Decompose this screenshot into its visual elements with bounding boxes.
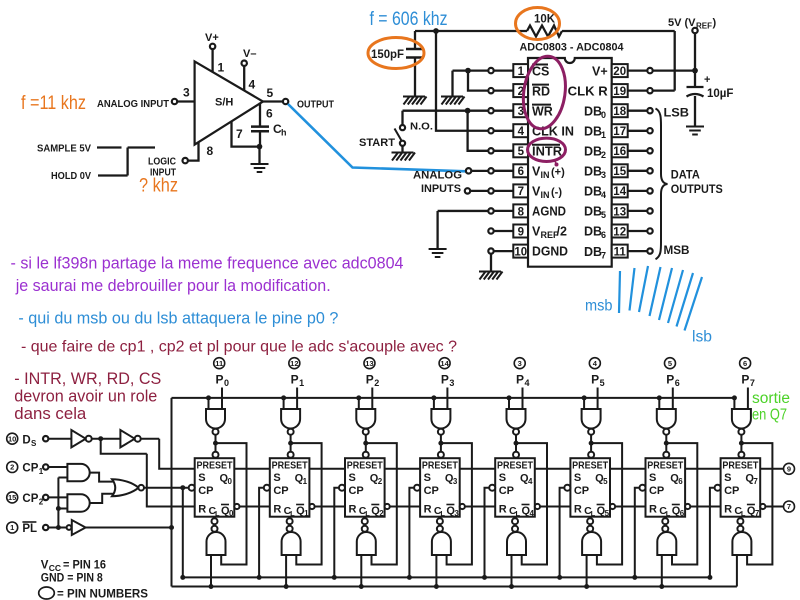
wire pin 8 logic input [188,142,199,160]
junction dot load bus cell 1 [284,584,289,589]
wire AGND [438,211,489,249]
pin box 15 [612,164,628,177]
wire Q4 to S [535,468,571,470]
wire Q0 to S [234,468,269,470]
svg-text:f =11 khz: f =11 khz [21,93,86,114]
and gate A [67,464,89,481]
svg-text:1: 1 [304,509,309,518]
svg-text:18: 18 [613,106,626,118]
svg-text:CP: CP [198,485,213,497]
wire to ground [258,147,260,164]
top bus load enable [172,397,735,399]
junction dot load bus cell 3 [434,584,439,589]
svg-text:11: 11 [215,359,223,368]
svg-text:PRESET: PRESET [197,460,233,472]
svg-text:je saurai me debrouiller pour: je saurai me debrouiller pour la modific… [15,276,331,295]
nand output bubble cell 6 [662,526,668,532]
svg-text:- que faire de cp1 , cp2 et pl: - que faire de cp1 , cp2 et pl pour que … [21,339,457,356]
junction dot bus cell 2 [356,395,361,400]
svg-text:5: 5 [600,378,605,388]
flip-flop FF2 [345,458,385,517]
terminal V- [242,61,247,66]
svg-text:CP: CP [424,485,439,497]
op-amp U1 S/H triangle [195,61,263,144]
svg-text:S: S [649,472,656,484]
junction dot bus cell 6 [657,395,662,400]
wire Q5 to S [610,468,646,470]
junction dot bus cell 1 [281,395,286,400]
nand gate top cell 6 [657,409,676,429]
svg-text:CC: CC [49,563,61,573]
wire pin 4 V- [243,66,245,91]
svg-text:S: S [198,472,205,484]
svg-text:CLK R: CLK R [568,84,608,98]
svg-text:L: L [516,509,521,518]
svg-text:0: 0 [229,509,234,518]
junction dot CP bus cell 1 [257,575,262,580]
svg-text:S: S [273,472,280,484]
svg-text:GND = PIN 8: GND = PIN 8 [41,573,104,585]
svg-text:P: P [291,373,299,387]
wire P3 input [446,388,448,410]
svg-text:3: 3 [449,378,454,388]
wire CP2 [48,496,67,498]
svg-text:L: L [215,509,220,518]
wire Q3 to S [460,468,496,470]
svg-text:+: + [704,74,710,86]
wire inverter A out [92,438,121,440]
clear bubble cell 5 [587,518,593,524]
svg-text:DB: DB [584,145,602,159]
svg-text:0: 0 [224,378,229,388]
wire Qbar7 output [765,506,783,508]
ground CS/RD [441,97,465,105]
svg-text:150pF: 150pF [371,49,404,61]
svg-text:7: 7 [601,250,606,260]
nand gate bottom cell 7 [732,532,751,555]
wire and B out [90,494,113,503]
preset bubble cell 0 [213,452,219,458]
svg-text:6: 6 [601,230,606,240]
nand output bubble cell 1 [287,526,293,532]
svg-text:ANALOG: ANALOG [413,170,462,182]
wire bus tap cell 7 [733,398,735,409]
blue wire output to Vin [288,104,466,171]
pin box 4 [513,124,528,137]
wire pin 5 output [263,100,283,102]
junction dot CP bus cell 3 [407,575,412,580]
wire CP feed cell 3 [409,488,414,578]
nand output bubble cell 7 [737,526,743,532]
svg-text:17: 17 [613,126,626,138]
wire nand bottom left input cell 2 [360,555,362,587]
svg-text:DB: DB [584,165,602,179]
svg-text:P: P [741,373,749,387]
junction dot bus cell 0 [206,395,211,400]
pin box 14 [612,184,628,197]
junction dot 5V [692,68,698,74]
nand gate bottom cell 2 [357,532,376,555]
wire P0 input [221,388,223,410]
svg-text:IN: IN [541,190,550,200]
orange ellipse around 10K [516,8,560,40]
svg-text:8: 8 [207,144,214,158]
wire pin 2 stub [494,89,514,91]
svg-text:DB: DB [584,205,602,219]
svg-text:ANALOG INPUT: ANALOG INPUT [97,99,169,110]
svg-text:5: 5 [601,210,606,220]
svg-text:4: 4 [601,190,606,200]
svg-text:devron avoir un role: devron avoir un role [14,387,157,406]
svg-text:INPUTS: INPUTS [421,183,461,195]
wire Q7 output [760,468,783,470]
terminal PL [43,525,48,530]
flip-flop FF6 [646,458,686,517]
clear bubble cell 7 [737,518,743,524]
wire bus tap cell 6 [658,398,660,409]
qbar terminal cell 3 [460,504,465,509]
svg-text:CP: CP [574,485,589,497]
pin box 19 [612,84,628,97]
nand output bubble cell 5 [587,526,593,532]
wire loop cell 2 [366,443,397,564]
junction dot bus cell 3 [431,395,436,400]
svg-text:N.O.: N.O. [410,121,433,133]
cp bubble cell 3 [414,485,420,491]
svg-text:2: 2 [10,463,14,472]
wire nand bottom left input cell 7 [736,555,738,587]
wire pin 1 stub [494,69,514,71]
svg-text:6: 6 [518,166,524,178]
svg-text:OUTPUTS: OUTPUTS [671,184,723,196]
nand output bubble cell 2 [362,526,368,532]
svg-text:8: 8 [518,206,525,218]
wire P1 input [296,388,298,410]
node CP2 pin 15 [7,492,18,503]
nand gate bottom cell 1 [282,532,301,555]
wire bus tap cell 3 [433,398,435,409]
svg-text:11: 11 [614,246,627,258]
wire P5 input [597,388,599,410]
junction dot preset cell 0 [213,441,218,446]
svg-text:20: 20 [613,66,626,78]
svg-text:CS: CS [532,64,549,78]
flip-flop FF7 [721,458,761,517]
wire CP feed cell 7 [710,488,715,578]
wire pin 8 stub [494,210,514,212]
svg-text:INTR: INTR [532,145,562,159]
junction dot bus cell 7 [732,395,737,400]
wire WR row [403,110,489,112]
svg-text:P: P [366,373,374,387]
legend pin numbers [39,587,55,599]
svg-text:10K: 10K [534,14,556,26]
svg-text:0: 0 [228,477,233,486]
wire 5V rail [653,33,695,87]
wire pin 20 stub [628,69,648,71]
svg-text:5: 5 [518,146,525,158]
svg-text:14: 14 [440,359,449,368]
svg-text:7: 7 [755,509,760,518]
left rail PL distribution [171,398,173,587]
svg-text:12: 12 [290,359,298,368]
wire pin 16 stub [628,150,648,152]
cp bubble cell 6 [639,485,645,491]
ground below Ch [251,164,269,172]
wire loop cell 6 [666,443,697,564]
svg-text:DB: DB [584,104,602,118]
wire CP feed cell 6 [635,488,640,578]
ground below switch [392,153,416,161]
svg-text:DATA: DATA [671,170,700,182]
wire pin 12 stub [628,230,648,232]
svg-text:CP: CP [273,485,288,497]
wire pin 14 stub [628,190,648,192]
svg-text:10: 10 [514,246,527,258]
svg-text:DB: DB [584,225,602,239]
ground DGND [479,272,503,280]
svg-text:P: P [666,373,674,387]
node P0 pin circle [214,358,225,369]
wire CLK IN vertical [436,31,488,131]
pin box 2 [513,84,528,97]
wire preset cell 6 [665,435,667,452]
nand gate top cell 1 [281,409,300,429]
wire Qbar3 to R [465,506,495,508]
inverter A [71,430,85,447]
svg-text:R: R [499,504,507,516]
wire nand bottom left input cell 3 [435,555,437,587]
junction dot CP bus cell 4 [482,575,487,580]
wire clock to FF0 [144,487,189,489]
node P4 pin circle [514,358,525,369]
flip-flop FF4 [495,458,535,517]
wire preset cell 7 [740,435,742,452]
svg-text:PRESET: PRESET [272,460,308,472]
orange ellipse around 150pF [368,38,424,69]
qbar7 terminal [760,504,765,509]
svg-text:3: 3 [183,86,190,100]
cp bubble cell 4 [489,485,495,491]
wire Qbar0 to R [239,506,269,508]
svg-text:PRESET: PRESET [497,460,533,472]
svg-text:D: D [22,435,30,447]
wire sample level [97,146,122,148]
wire 150pF [414,31,416,49]
junction dot preset cell 5 [589,441,594,446]
junction dot load bus cell 2 [359,584,364,589]
svg-text:16: 16 [613,146,626,158]
ground below 10uF [686,127,704,135]
svg-text:6: 6 [743,359,747,368]
wire CP1 [48,466,67,468]
node P7 pin circle [740,358,751,369]
svg-text:15: 15 [8,493,16,502]
junction dot CP bus cell 2 [332,575,337,580]
wire Vin+ [471,170,488,172]
nand gate top cell 3 [431,409,450,429]
wire clock top rail [415,30,675,32]
svg-text:PRESET: PRESET [722,460,758,472]
terminal analog in + [466,168,471,173]
switch S1 start [401,111,403,125]
terminal pin 9 [488,228,493,233]
svg-text:5: 5 [267,86,274,100]
svg-text:L: L [591,509,596,518]
pin box 10 [513,245,528,258]
svg-text:2: 2 [378,477,383,486]
wire loop cell 4 [516,443,547,564]
wire Qbar6 to R [690,506,720,508]
nand gate top cell 7 [732,409,751,429]
junction dot load bus cell 6 [659,584,664,589]
junction dot WR [465,108,471,114]
pin box 1 [513,64,528,77]
junction dot pin6/7 [257,144,263,150]
nand gate bottom cell 4 [507,532,526,555]
svg-text:1: 1 [10,523,14,532]
svg-text:P: P [516,373,524,387]
junction dot load bus cell 0 [209,584,214,589]
wire pin 6 stub [494,170,514,172]
svg-text:- qui du msb ou du lsb attaque: - qui du msb ou du lsb attaquera le pine… [18,310,338,328]
svg-text:5: 5 [605,509,610,518]
or gate clock [112,479,139,496]
svg-text:1: 1 [518,66,525,78]
and gate B [67,494,89,511]
wire P4 input [522,388,524,410]
node Qbar7 pin 7 [784,501,795,512]
wire nand bottom left input cell 4 [511,555,513,587]
svg-text:en Q7: en Q7 [752,407,787,424]
wire P2 input [371,388,373,410]
junction dot clock [180,485,185,490]
cp bubble cell 5 [564,485,570,491]
wire nand bottom left input cell 1 [285,555,287,587]
svg-text:4: 4 [249,78,256,92]
flip-flop FF1 [270,458,310,517]
wire bus tap cell 5 [583,398,585,409]
wire CS/RD tie [453,71,489,97]
svg-text:/2: /2 [557,225,567,239]
wire pin 19 stub [628,89,648,91]
wire Qbar1 to R [315,506,346,508]
wire WR to INTR [468,111,488,151]
nand output bubble cell 0 [212,526,218,532]
wire pin 18 stub [628,110,648,112]
wire nand bottom left input cell 0 [210,555,212,587]
wire pin 5 stub [494,150,514,152]
qbar terminal cell 5 [610,504,615,509]
svg-text:5: 5 [603,477,608,486]
terminal OUTPUT [283,99,288,104]
svg-text:CP: CP [724,485,739,497]
svg-text:R: R [649,504,657,516]
svg-text:6: 6 [680,509,685,518]
svg-text:DGND: DGND [532,245,568,259]
svg-text:R: R [348,504,356,516]
wire PL gating to and gates [58,478,67,528]
svg-text:4: 4 [528,477,533,486]
svg-text:S: S [574,472,581,484]
pin box 12 [612,225,628,238]
svg-text:6: 6 [675,378,680,388]
wire PL inverter out [86,527,172,529]
svg-text:S: S [31,439,37,448]
svg-text:S: S [499,472,506,484]
pin box 16 [612,144,628,157]
svg-text:(-): (-) [551,187,562,199]
junction dot preset cell 3 [438,441,443,446]
wire pin 7 [232,122,260,147]
wire pin 17 stub [628,130,648,132]
terminal CP1 [43,464,48,469]
svg-text:P: P [441,373,449,387]
terminal 5V [692,28,697,33]
wire and A out [90,473,113,482]
svg-text:f = 606 khz: f = 606 khz [370,9,448,30]
wire pin 11 stub [628,250,648,252]
junction dot CP bus cell 6 [632,575,637,580]
svg-text:IN: IN [541,170,550,180]
wire Q1 to S [309,468,345,470]
terminal pin 3 [172,99,177,104]
svg-text:PRESET: PRESET [347,460,383,472]
junction dot bus cell 4 [507,395,512,400]
svg-text:0: 0 [601,110,606,120]
flip-flop FF3 [420,458,460,517]
terminal pin 10 [488,248,493,253]
svg-text:CP: CP [649,485,664,497]
clear bubble cell 0 [212,518,218,524]
svg-text:19: 19 [613,86,626,98]
nand gate bottom cell 3 [432,532,451,555]
node PL pin 1 [7,522,18,533]
svg-text:? khz: ? khz [139,176,178,197]
svg-text:- si le lf398n partage la meme: - si le lf398n partage la meme frequence… [11,254,404,273]
junction dot preset cell 6 [664,441,669,446]
wire loop cell 7 [741,443,772,564]
junction dot CP bus cell 5 [557,575,562,580]
pin box 17 [612,124,628,137]
terminal pin 8 [488,208,493,213]
node P3 pin circle [439,358,450,369]
nand gate bottom cell 6 [657,532,676,555]
svg-text:4: 4 [518,126,525,138]
junction dot load bus cell 4 [509,584,514,589]
junction dot PL rail [169,525,174,530]
svg-text:= PIN 16: = PIN 16 [63,560,106,572]
nand output bubble cell 4 [512,526,518,532]
wire logic step [128,148,155,176]
wire bus tap cell 1 [283,398,285,409]
svg-text:R: R [724,504,732,516]
clear bubble cell 2 [362,518,368,524]
capacitor Ch [251,127,269,132]
svg-text:7: 7 [787,502,791,511]
wire preset cell 5 [590,435,592,452]
svg-text:dans cela: dans cela [14,404,87,423]
clear bubble cell 4 [512,518,518,524]
terminal pin 1 [488,68,493,73]
wire S feed FF0 [141,439,195,469]
svg-text:P: P [216,373,224,387]
IC U2 body ADC0804 [528,58,612,267]
svg-text:13: 13 [365,359,373,368]
bottom bus load [172,586,737,588]
svg-text:12: 12 [613,226,626,238]
svg-text:R: R [273,504,281,516]
